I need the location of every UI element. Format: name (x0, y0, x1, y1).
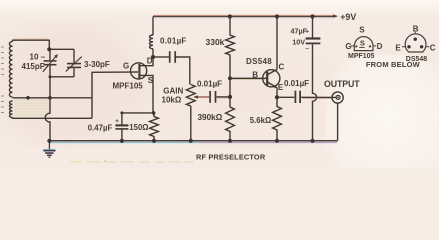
wire base (230, 78, 267, 79)
svg-text:0.47µF: 0.47µF (88, 124, 113, 133)
antenna coil L1 main winding (9, 42, 12, 97)
node tank top junction (47, 47, 51, 51)
wire tank bottom (13, 97, 93, 99)
node base junctions (228, 76, 232, 99)
capacitor 0.01uF drain coupling (153, 37, 190, 85)
trimmer capacitor 3-30pF (66, 49, 110, 77)
svg-text:D: D (377, 42, 383, 51)
node rail junctions (228, 14, 315, 18)
svg-text:330k: 330k (206, 37, 225, 47)
ground symbol (43, 141, 55, 157)
svg-text:+: + (115, 118, 119, 125)
capacitor 0.01uF interstage (197, 80, 230, 103)
svg-text:390kΩ: 390kΩ (198, 113, 223, 122)
svg-text:OUTPUT: OUTPUT (324, 79, 360, 89)
node tank bottom junctions (26, 96, 52, 100)
JFET Q1 MPF105 (113, 57, 154, 113)
svg-text:G: G (123, 61, 129, 70)
capacitor 0.01uF output coupling (277, 79, 309, 103)
wire gate (92, 72, 138, 118)
potentiometer GAIN 10k (162, 85, 210, 141)
resistor 150 ohm (129, 113, 158, 141)
svg-text:E: E (278, 83, 284, 92)
transistor Q2 DS548 (246, 57, 285, 92)
svg-text:150Ω: 150Ω (129, 123, 148, 132)
svg-text:3-30pF: 3-30pF (84, 60, 110, 69)
svg-text:DS548: DS548 (246, 57, 272, 66)
svg-text:S: S (148, 76, 154, 85)
svg-text:FROM BELOW: FROM BELOW (366, 60, 421, 69)
svg-text:S: S (360, 39, 365, 48)
wire coupling winding bottom (13, 117, 93, 120)
wire source node (122, 112, 153, 114)
svg-text:B: B (413, 25, 419, 34)
resistor 5.6k (250, 97, 282, 141)
ground bus wire (49, 141, 337, 143)
variable capacitor 10-415pF (22, 49, 59, 98)
smudge artifacts (70, 160, 194, 163)
svg-text:GAIN: GAIN (163, 86, 183, 95)
node drain junction (151, 55, 155, 59)
svg-text:G: G (345, 42, 351, 51)
pinout diagram DS548 (366, 25, 436, 69)
svg-text:0.01µF: 0.01µF (284, 79, 309, 88)
node emitter junction (275, 95, 279, 99)
capacitor 47uF supply bypass (291, 17, 321, 141)
wire output (301, 97, 336, 98)
svg-text:10kΩ: 10kΩ (162, 95, 182, 104)
svg-text:415pF: 415pF (22, 62, 45, 71)
+9V power rail (153, 12, 356, 22)
resistor 390k (198, 78, 235, 141)
svg-text:–: – (305, 45, 309, 52)
svg-text:0.01µF: 0.01µF (197, 80, 222, 89)
pinout diagram MPF105 (345, 25, 382, 60)
svg-text:C: C (279, 63, 285, 72)
output jack (324, 79, 360, 103)
svg-text:0.01µF: 0.01µF (160, 37, 187, 46)
wire emitter (276, 88, 278, 97)
page-edge tick artifacts (1, 47, 4, 113)
caption RF PRESELECTOR (196, 153, 266, 162)
coil L1 coupling winding (9, 101, 12, 118)
svg-text:S: S (359, 25, 365, 34)
svg-text:47µF: 47µF (291, 27, 308, 36)
wire collector (276, 17, 278, 70)
node bus junctions (47, 139, 314, 143)
svg-text:MPF105: MPF105 (348, 53, 375, 60)
svg-text:MPF105: MPF105 (113, 81, 144, 90)
wire trimmer bottom to tank (50, 76, 74, 78)
wire jack ground (337, 103, 339, 141)
svg-text:RF PRESELECTOR: RF PRESELECTOR (196, 153, 266, 162)
wire tank top (13, 39, 75, 49)
RF choke (150, 17, 154, 58)
svg-text:B: B (252, 71, 258, 80)
svg-text:E: E (395, 43, 401, 52)
svg-text:10 –: 10 – (30, 53, 46, 62)
svg-text:+9V: +9V (340, 12, 356, 22)
resistor 330k (206, 17, 235, 79)
svg-text:C: C (430, 43, 436, 52)
svg-text:5.6kΩ: 5.6kΩ (250, 116, 271, 125)
wire tank to ground with crossover hop (45, 98, 50, 141)
capacitor 0.47uF source bypass (88, 113, 129, 141)
svg-text:10V: 10V (292, 37, 305, 46)
